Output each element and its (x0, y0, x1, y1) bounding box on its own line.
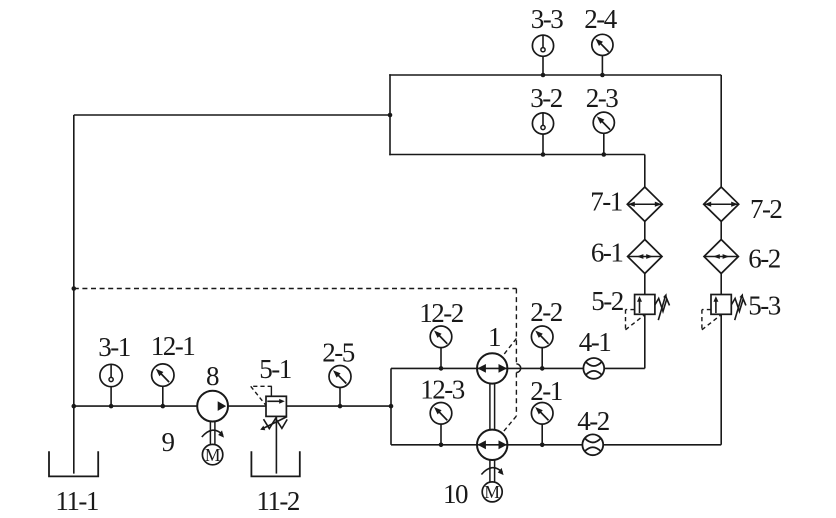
svg-text:3-1: 3-1 (98, 332, 130, 362)
svg-text:M: M (484, 482, 500, 502)
wire: between filter 7-2 and 6-2 (720, 221, 722, 240)
shaft below pump 10 (490, 460, 495, 482)
junction: 12-3 on pump-10 line (439, 443, 444, 448)
pump 8 (197, 391, 228, 422)
svg-text:3-2: 3-2 (530, 83, 562, 113)
svg-text:2-2: 2-2 (530, 297, 562, 327)
stem of gauge 12-1 (162, 386, 164, 406)
junction: left pipe / main line (72, 404, 77, 409)
filter 7-1 (627, 187, 662, 221)
shaft between pump 1 and pump 10 (490, 384, 495, 430)
svg-text:6-1: 6-1 (591, 237, 623, 267)
svg-text:9: 9 (162, 427, 175, 457)
svg-text:11-2: 11-2 (256, 486, 299, 516)
pressure gauge 2-2 (531, 326, 553, 348)
svg-text:11-1: 11-1 (55, 486, 98, 516)
wire: main pump-8 line y=406.1 (74, 405, 391, 407)
pilot line: hop over pump-1 pipe (516, 364, 520, 373)
pressure gauge 2-1 (531, 403, 553, 425)
wire: left filter column upper (to filter 7-1) (644, 155, 646, 188)
wire: valve 5-3 outlet down to pump-10 line (720, 314, 722, 445)
relief valve 5-3 (702, 293, 746, 330)
svg-text:1: 1 (488, 322, 500, 352)
flow meter 4-1 (583, 358, 604, 379)
pump 1 (test pump) (477, 353, 507, 383)
pressure gauge 2-4 (592, 34, 613, 55)
wire: vertical pipe x=390 joining top lines (389, 74, 391, 155)
junction: 2-5 on main line (338, 404, 343, 409)
temperature gauge 3-2 (532, 113, 553, 134)
svg-text:10: 10 (443, 479, 468, 509)
pressure gauge 2-5 (329, 366, 351, 388)
pilot line: dashed vertical x=516.4 upper (515, 289, 517, 364)
junction: 3-3 on top pipe (541, 73, 546, 78)
wire: pump 1 top line y=368.4 (391, 367, 645, 369)
stem of gauge 12-3 (440, 424, 442, 445)
stem of gauge 2-3 (603, 133, 605, 154)
junction: pilot takeoff on left pipe (72, 286, 77, 291)
pressure gauge 12-1 (152, 364, 174, 386)
junction: 12-2 on pump-1 line (439, 366, 444, 371)
relief valve 5-2 (626, 293, 670, 330)
pilot line: dashed vertical x=516.4 lower (515, 373, 517, 417)
junction: 3-2 on second pipe (541, 152, 546, 157)
svg-text:2-4: 2-4 (584, 4, 617, 34)
wire: between filter 6-1 and valve 5-2 (644, 273, 646, 294)
stem of gauge 2-1 (541, 424, 543, 445)
wire: between filter 6-2 and valve 5-3 (720, 273, 722, 294)
svg-text:12-2: 12-2 (419, 298, 463, 328)
svg-text:5-2: 5-2 (591, 286, 623, 316)
tank 11-1 (49, 451, 98, 476)
wire: between filter 7-1 and 6-1 (644, 221, 646, 240)
pressure valve 5-1 (251, 386, 288, 430)
stem of gauge 2-5 (339, 388, 341, 407)
svg-text:7-2: 7-2 (750, 194, 782, 224)
wire: vertical pipe x=391 between pump lines (390, 368, 392, 444)
pressure gauge 12-3 (430, 403, 452, 425)
junction: 3-1 on main line (109, 404, 114, 409)
wire: top-left horizontal pipe (74, 114, 390, 116)
pressure gauge 2-3 (593, 112, 614, 133)
stem of gauge 3-3 (542, 56, 544, 75)
stem of gauge 2-4 (601, 55, 603, 75)
svg-text:4-2: 4-2 (577, 406, 609, 436)
svg-text:2-1: 2-1 (530, 376, 562, 406)
wire: second pipe y=154.5 (389, 154, 645, 156)
svg-text:2-3: 2-3 (586, 83, 618, 113)
wire: valve 5-2 outlet down to pump-1 line (644, 314, 646, 368)
stem of gauge 3-2 (542, 134, 544, 155)
svg-text:5-3: 5-3 (748, 291, 780, 321)
wire: valve 5-1 drain to tank 11-2 (275, 416, 277, 473)
pilot line: dashed diagonal to pump 10 (503, 416, 516, 432)
wire: left vertical pipe to tank 11-1 (73, 115, 75, 474)
junction: main line / x=391 pipe (389, 404, 394, 409)
stem of gauge 3-1 (110, 387, 112, 407)
stem of gauge 12-2 (440, 348, 442, 369)
wire: right column upper (to filter 7-2) (720, 75, 722, 188)
junction: top-left tee (388, 113, 393, 118)
svg-text:4-1: 4-1 (579, 327, 611, 357)
temperature gauge 3-1 (100, 364, 122, 386)
junction: 2-1 on pump-10 line (540, 443, 545, 448)
pressure gauge 12-2 (430, 326, 452, 348)
stem of gauge 2-2 (541, 348, 543, 369)
svg-text:12-1: 12-1 (151, 331, 195, 361)
svg-text:2-5: 2-5 (322, 338, 354, 368)
rotation arrow of motor 9 (202, 430, 224, 437)
svg-text:8: 8 (206, 361, 219, 391)
flow meter 4-2 (582, 434, 603, 455)
svg-text:6-2: 6-2 (748, 244, 780, 274)
filter 6-1 (628, 240, 662, 274)
pilot line: dashed diagonal to pump 1 (503, 339, 516, 356)
svg-text:5-1: 5-1 (259, 354, 291, 384)
rotation arrow of pump-10 motor (481, 468, 503, 475)
junction: 2-4 on top pipe (600, 73, 605, 78)
svg-text:7-1: 7-1 (590, 187, 622, 217)
temperature gauge 3-3 (532, 35, 553, 56)
pilot line: long dashed horizontal y=288.5 (74, 288, 517, 290)
tank 11-2 (251, 451, 299, 476)
wire: top pipe y=75 (389, 74, 721, 76)
motor 9 (M) (202, 444, 222, 464)
motor M of pump 10 (482, 482, 502, 502)
junction: 2-2 on pump-1 line (540, 366, 545, 371)
junction: 2-3 on second pipe (602, 152, 607, 157)
svg-text:12-3: 12-3 (420, 375, 464, 405)
svg-text:3-3: 3-3 (531, 4, 563, 34)
shaft of pump 8 (210, 422, 215, 446)
wire: pump 10 bottom line y=444.8 (391, 444, 721, 446)
svg-text:M: M (205, 445, 221, 465)
filter 7-2 (704, 187, 739, 221)
pump 10 (loading pump) (477, 430, 507, 460)
junction: 12-1 on main line (161, 404, 166, 409)
filter 6-2 (704, 240, 738, 274)
